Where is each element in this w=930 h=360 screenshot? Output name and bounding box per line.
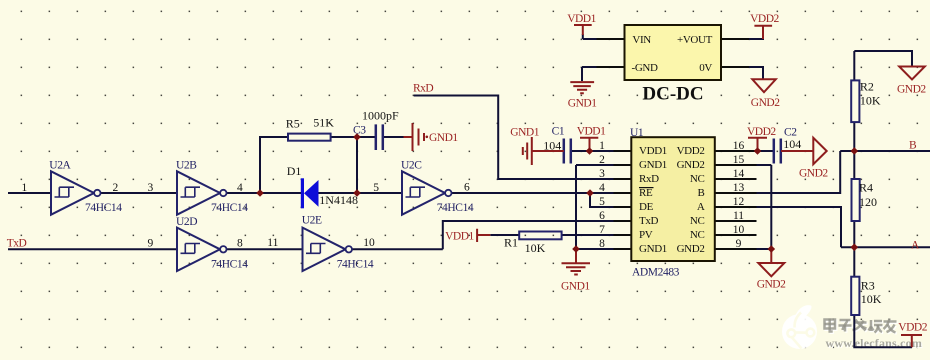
- svg-text:16: 16: [733, 140, 745, 152]
- svg-text:4: 4: [599, 182, 605, 194]
- svg-text:R5: R5: [286, 117, 300, 131]
- svg-text:120: 120: [859, 195, 877, 209]
- svg-text:PV: PV: [639, 229, 653, 241]
- svg-text:11: 11: [733, 210, 744, 222]
- svg-text:13: 13: [733, 182, 745, 194]
- svg-text:GND2: GND2: [677, 243, 705, 255]
- svg-text:VDD1: VDD1: [639, 145, 667, 157]
- svg-text:1000pF: 1000pF: [362, 108, 399, 122]
- svg-text:11: 11: [267, 237, 278, 249]
- svg-text:RE: RE: [639, 187, 653, 199]
- svg-text:U2C: U2C: [401, 160, 422, 172]
- svg-text:51K: 51K: [313, 116, 334, 130]
- svg-text:DE: DE: [639, 201, 654, 213]
- svg-text:6: 6: [464, 182, 470, 194]
- svg-text:C3: C3: [353, 125, 366, 137]
- svg-text:DC-DC: DC-DC: [642, 84, 703, 105]
- svg-text:R3: R3: [861, 279, 875, 293]
- svg-text:VDD2: VDD2: [747, 126, 776, 138]
- svg-text:U2B: U2B: [176, 160, 197, 172]
- svg-text:GND2: GND2: [897, 84, 926, 96]
- svg-text:10: 10: [733, 224, 745, 236]
- svg-text:14: 14: [733, 168, 745, 180]
- svg-text:R2: R2: [860, 80, 874, 94]
- svg-text:2: 2: [599, 154, 605, 166]
- svg-text:GND2: GND2: [751, 97, 780, 109]
- svg-text:U2D: U2D: [176, 216, 197, 228]
- svg-text:1: 1: [599, 140, 605, 152]
- svg-text:NC: NC: [690, 173, 705, 185]
- svg-text:VDD1: VDD1: [577, 126, 606, 138]
- svg-text:VDD2: VDD2: [750, 13, 779, 25]
- svg-text:RxD: RxD: [413, 83, 433, 95]
- svg-text:10K: 10K: [861, 292, 882, 306]
- svg-text:R1: R1: [504, 236, 518, 250]
- svg-text:8: 8: [599, 238, 605, 250]
- svg-text:R4: R4: [859, 181, 873, 195]
- svg-text:1: 1: [22, 182, 28, 194]
- svg-text:2: 2: [113, 182, 119, 194]
- svg-text:GND2: GND2: [799, 168, 828, 180]
- svg-text:VIN: VIN: [632, 34, 651, 46]
- svg-text:74HC14: 74HC14: [337, 259, 374, 271]
- svg-text:GND1: GND1: [639, 243, 667, 255]
- svg-text:GND1: GND1: [429, 132, 458, 144]
- svg-text:8: 8: [237, 238, 243, 250]
- svg-text:10: 10: [363, 237, 375, 249]
- svg-text:9: 9: [736, 238, 742, 250]
- svg-text:10K: 10K: [860, 94, 881, 108]
- svg-text:VDD1: VDD1: [445, 231, 474, 243]
- svg-text:U2E: U2E: [302, 215, 322, 227]
- svg-text:3: 3: [148, 182, 154, 194]
- svg-text:NC: NC: [690, 215, 705, 227]
- svg-text:U2A: U2A: [49, 160, 71, 172]
- svg-text:TxD: TxD: [639, 215, 659, 227]
- svg-text:GND1: GND1: [561, 281, 590, 293]
- svg-text:6: 6: [599, 210, 605, 222]
- svg-text:GND1: GND1: [639, 159, 667, 171]
- svg-text:104: 104: [783, 137, 801, 151]
- svg-text:B: B: [698, 187, 705, 199]
- svg-text:-GND: -GND: [632, 62, 659, 74]
- svg-text:U1: U1: [630, 127, 644, 139]
- svg-text:C1: C1: [552, 126, 565, 138]
- svg-text:VDD2: VDD2: [898, 322, 927, 334]
- svg-text:NC: NC: [690, 229, 705, 241]
- svg-text:1N4148: 1N4148: [319, 193, 358, 207]
- svg-text:GND1: GND1: [510, 126, 539, 138]
- svg-text:15: 15: [733, 154, 745, 166]
- svg-text:GND2: GND2: [757, 279, 786, 291]
- svg-text:5: 5: [599, 196, 605, 208]
- svg-text:B: B: [909, 139, 917, 151]
- svg-text:3: 3: [599, 168, 605, 180]
- svg-text:RxD: RxD: [639, 173, 659, 185]
- svg-text:74HC14: 74HC14: [85, 202, 122, 214]
- svg-text:VDD2: VDD2: [677, 145, 705, 157]
- svg-text:VDD1: VDD1: [567, 13, 596, 25]
- svg-text:74HC14: 74HC14: [211, 259, 248, 271]
- svg-text:7: 7: [599, 224, 605, 236]
- svg-text:GND1: GND1: [568, 98, 597, 110]
- svg-text:74HC14: 74HC14: [437, 202, 474, 214]
- svg-text:GND2: GND2: [677, 159, 705, 171]
- svg-text:12: 12: [733, 196, 745, 208]
- svg-text:0V: 0V: [699, 62, 712, 74]
- svg-text:ADM2483: ADM2483: [632, 267, 680, 279]
- svg-text:5: 5: [373, 182, 379, 194]
- svg-text:A: A: [911, 239, 920, 251]
- svg-text:D1: D1: [287, 164, 302, 178]
- svg-text:4: 4: [237, 182, 243, 194]
- svg-text:A: A: [697, 201, 705, 213]
- svg-text:+VOUT: +VOUT: [677, 34, 713, 46]
- svg-text:TxD: TxD: [7, 238, 27, 250]
- svg-text:74HC14: 74HC14: [211, 202, 248, 214]
- svg-text:10K: 10K: [525, 241, 546, 255]
- svg-text:9: 9: [148, 238, 154, 250]
